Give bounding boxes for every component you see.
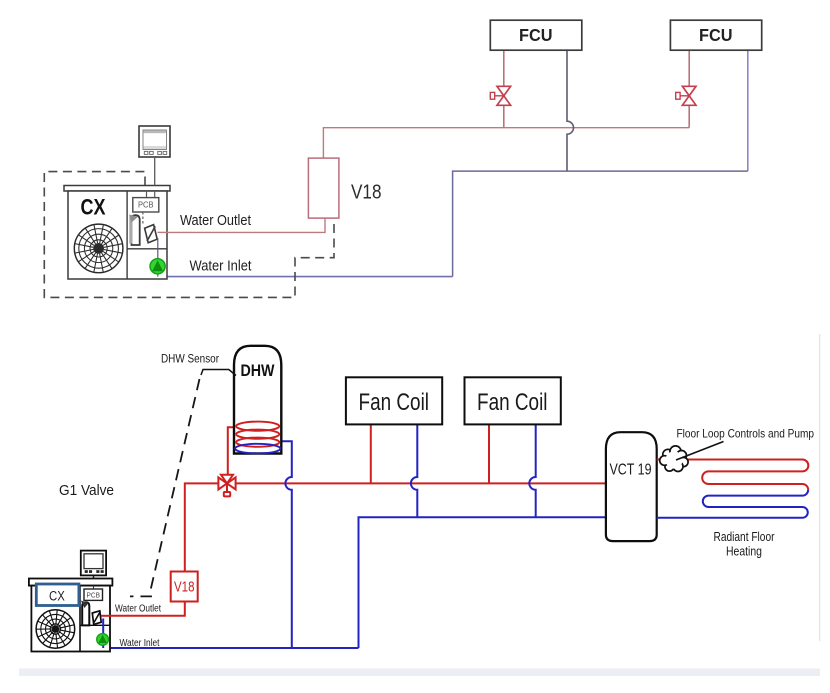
svg-text:CX: CX (81, 195, 106, 220)
svg-text:PCB: PCB (138, 200, 154, 210)
svg-text:Fan Coil: Fan Coil (359, 389, 430, 416)
svg-text:FCU: FCU (519, 25, 553, 45)
svg-text:DHW: DHW (241, 361, 276, 380)
svg-text:Fan Coil: Fan Coil (477, 389, 548, 416)
svg-text:Water Outlet: Water Outlet (115, 604, 161, 615)
svg-text:G1 Valve: G1 Valve (59, 483, 114, 499)
svg-text:Water Inlet: Water Inlet (190, 259, 252, 275)
svg-text:Radiant Floor: Radiant Floor (714, 530, 775, 544)
svg-text:Floor Loop Controls and Pump: Floor Loop Controls and Pump (677, 427, 815, 441)
svg-text:PCB: PCB (87, 590, 101, 599)
svg-text:V18: V18 (351, 182, 382, 204)
svg-text:Water Inlet: Water Inlet (120, 638, 160, 649)
svg-text:V18: V18 (174, 580, 195, 596)
svg-text:Heating: Heating (726, 545, 762, 559)
svg-text:FCU: FCU (699, 25, 733, 45)
svg-text:VCT 19: VCT 19 (610, 462, 652, 479)
svg-text:CX: CX (49, 588, 65, 603)
svg-text:Water Outlet: Water Outlet (180, 213, 251, 229)
svg-text:DHW Sensor: DHW Sensor (161, 352, 219, 366)
